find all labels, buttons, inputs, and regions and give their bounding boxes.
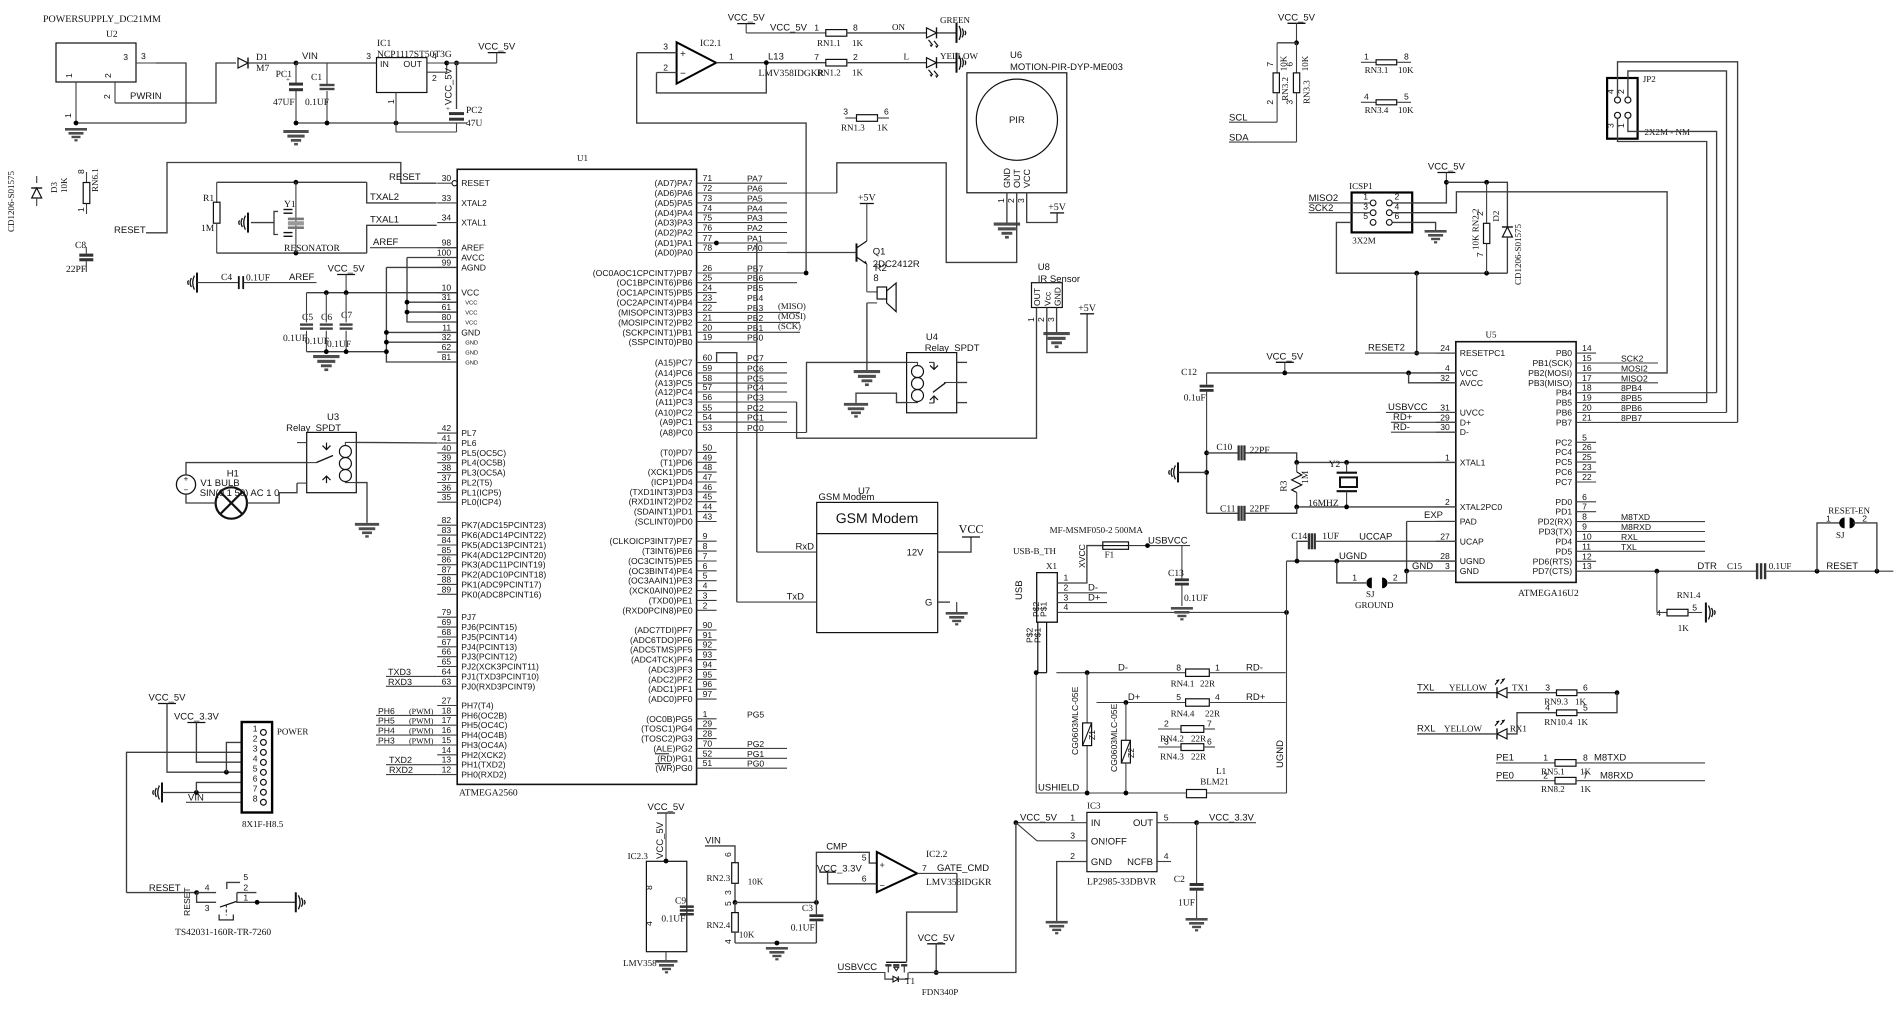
U1 pin 76 (AD2)PA2 <box>655 223 787 238</box>
overline RD <box>655 753 669 755</box>
svg-text:PC2: PC2 <box>747 403 764 413</box>
svg-text:2: 2 <box>102 94 112 99</box>
svg-text:0.1UF: 0.1UF <box>246 274 270 284</box>
svg-text:25: 25 <box>1582 452 1592 462</box>
svg-text:3: 3 <box>123 52 128 62</box>
U5 pin 17 PB3(MISO) <box>1528 373 1658 388</box>
svg-text:61: 61 <box>442 302 452 312</box>
svg-text:XTAL2PC0: XTAL2PC0 <box>1460 502 1503 512</box>
svg-text:NCFB: NCFB <box>1127 857 1153 868</box>
junction <box>1294 40 1299 45</box>
junction <box>1282 371 1287 376</box>
svg-text:PC4: PC4 <box>747 383 764 393</box>
junction <box>1444 180 1449 185</box>
svg-text:(RXD1INT2)PD2: (RXD1INT2)PD2 <box>629 497 693 507</box>
resistor RN2.3 <box>707 863 764 906</box>
U1 pin 65 PJ2(XCK3PCINT11) <box>437 657 539 672</box>
net RD- <box>1391 422 1456 433</box>
svg-text:8: 8 <box>703 541 708 551</box>
svg-text:(SCKPCINT1)PB1: (SCKPCINT1)PB1 <box>622 327 692 337</box>
wire PC0 to relay U4 <box>807 362 907 432</box>
svg-text:(PWM): (PWM) <box>409 707 434 716</box>
U1 pin 61 vcc <box>437 302 477 317</box>
svg-text:3: 3 <box>843 107 848 117</box>
svg-text:VCC: VCC <box>1460 368 1478 378</box>
svg-text:VCC_5V: VCC_5V <box>770 23 808 34</box>
svg-text:30: 30 <box>442 173 452 183</box>
capacitor C5 <box>283 293 313 352</box>
svg-text:3: 3 <box>253 743 258 753</box>
svg-text:VCC_5V: VCC_5V <box>728 13 766 24</box>
junction <box>714 241 719 246</box>
junction <box>1334 559 1339 564</box>
U1 pin 49 (T1)PD6 <box>660 452 716 467</box>
svg-text:U1: U1 <box>577 153 588 163</box>
svg-text:0.1uF: 0.1uF <box>1184 394 1206 404</box>
wire USBVCC <box>1129 535 1191 546</box>
svg-text:(AD4)PA4: (AD4)PA4 <box>655 208 693 218</box>
svg-text:RXD2: RXD2 <box>389 765 413 775</box>
wire speaker to ground <box>866 303 868 370</box>
svg-text:AREF: AREF <box>289 272 315 283</box>
svg-text:(OC2APCINT4)PB4: (OC2APCINT4)PB4 <box>617 297 693 307</box>
svg-text:62: 62 <box>442 342 452 352</box>
svg-text:92: 92 <box>703 640 713 650</box>
svg-text:RXL: RXL <box>1621 532 1638 542</box>
svg-text:3: 3 <box>1064 592 1069 602</box>
wire <box>1178 471 1207 473</box>
U5 pin 26 PC4 <box>1555 442 1596 457</box>
svg-text:C1: C1 <box>311 73 322 83</box>
connector X1 USB-B_TH <box>1013 546 1057 673</box>
ground <box>994 223 1020 226</box>
svg-text:2: 2 <box>1265 100 1275 105</box>
svg-text:+: + <box>446 105 450 113</box>
ground <box>295 892 297 912</box>
svg-text:IR Sensor: IR Sensor <box>1038 274 1080 285</box>
svg-text:GROUND: GROUND <box>1355 600 1394 610</box>
svg-text:20: 20 <box>1582 403 1592 413</box>
svg-text:1: 1 <box>243 893 248 903</box>
junction <box>255 900 260 905</box>
svg-text:1: 1 <box>1215 662 1220 672</box>
net GND <box>1407 561 1456 572</box>
svg-text:CD1206-S01575: CD1206-S01575 <box>1513 223 1523 285</box>
U1 pin 22 (MISOPCINT3)PB3 <box>618 302 800 317</box>
svg-text:Y1: Y1 <box>284 200 296 210</box>
svg-text:RN3.2: RN3.2 <box>1280 77 1290 101</box>
svg-text:6: 6 <box>723 852 733 857</box>
capacitor C1 <box>305 63 335 123</box>
svg-text:C7: C7 <box>341 311 352 321</box>
net EXP / PAD wire <box>1407 510 1456 571</box>
svg-text:CG0603MLC-05E: CG0603MLC-05E <box>1070 686 1080 755</box>
wire out to VCC flag <box>447 62 497 64</box>
capacitor C2 <box>1174 823 1204 918</box>
svg-text:0.1UF: 0.1UF <box>327 340 351 350</box>
svg-text:22PF: 22PF <box>1250 446 1270 456</box>
svg-text:VCC_5V: VCC_5V <box>1428 162 1466 173</box>
net RXL <box>1417 724 1497 735</box>
U1 pin 17 PH5(OC4C) <box>437 715 507 730</box>
U1 pin 57 (A12)PC4 <box>655 382 787 397</box>
svg-text:4: 4 <box>432 51 437 61</box>
svg-text:1: 1 <box>729 52 734 62</box>
U1 pin 68 PJ5(PCINT14) <box>437 627 517 642</box>
svg-text:RN2.4: RN2.4 <box>707 920 731 930</box>
resonator Y1 <box>239 182 341 254</box>
svg-text:M8TXD: M8TXD <box>1594 753 1626 764</box>
U1 pin 10 VCC <box>437 283 479 298</box>
svg-text:8PB5: 8PB5 <box>1621 393 1642 403</box>
svg-text:SJ: SJ <box>1836 530 1845 540</box>
svg-text:DTR: DTR <box>1697 561 1717 572</box>
MCU U5 ATMEGA16U2 <box>1456 330 1579 600</box>
svg-text:(TXD1INT3)PD3: (TXD1INT3)PD3 <box>630 487 693 497</box>
wire base <box>787 252 857 254</box>
svg-text:VCC: VCC <box>465 310 477 317</box>
svg-text:1: 1 <box>996 198 1006 203</box>
svg-text:1UF: 1UF <box>1178 898 1195 908</box>
net RXD2 <box>386 774 437 776</box>
U1 pin 6 (OC3BINT4)PE4 <box>629 561 717 576</box>
svg-text:15: 15 <box>1582 353 1592 363</box>
svg-text:(PWM): (PWM) <box>409 717 434 726</box>
svg-text:T1: T1 <box>905 976 915 986</box>
svg-text:1: 1 <box>253 723 258 733</box>
svg-text:21: 21 <box>1582 412 1592 422</box>
U5 pin RESETPC1 <box>1436 343 1506 358</box>
junction <box>325 121 330 126</box>
svg-text:RN3.1: RN3.1 <box>1365 65 1389 75</box>
svg-text:3: 3 <box>1070 831 1075 841</box>
net RD+ <box>1391 412 1456 423</box>
U1 pin 4 (XCK0AIN0)PE2 <box>629 581 717 596</box>
junction <box>384 349 389 354</box>
junction <box>1014 820 1019 825</box>
U1 pin 43 (SCLINT0)PD0 <box>635 512 717 527</box>
svg-text:PA7: PA7 <box>747 174 763 184</box>
U1 pin 78 (AD0)PA0 <box>655 243 857 258</box>
svg-text:PD4: PD4 <box>1555 536 1572 546</box>
svg-text:(ADC6TDO)PF6: (ADC6TDO)PF6 <box>630 635 693 645</box>
U1 pin 3 (TXD0)PE1 <box>649 590 717 605</box>
svg-text:(SSPCINT0)PB0: (SSPCINT0)PB0 <box>629 337 693 347</box>
svg-text:19: 19 <box>703 332 713 342</box>
U5 pin 6 PD0 <box>1555 492 1596 507</box>
svg-text:PL5(OC5C): PL5(OC5C) <box>461 448 506 458</box>
svg-text:+: + <box>680 49 686 60</box>
wire node to C3 <box>735 901 816 903</box>
svg-text:1: 1 <box>63 113 73 118</box>
svg-text:PB5: PB5 <box>747 283 763 293</box>
wire <box>1277 42 1296 44</box>
svg-text:VCC_5V: VCC_5V <box>328 264 366 275</box>
svg-text:VCC_5V: VCC_5V <box>1266 351 1304 362</box>
svg-text:VCC_5V: VCC_5V <box>1278 12 1316 23</box>
svg-text:U8: U8 <box>1038 262 1050 273</box>
svg-text:5: 5 <box>1164 812 1169 822</box>
svg-text:1: 1 <box>1826 514 1831 524</box>
op-amp IC2.2 <box>877 850 992 892</box>
capacitor C14 <box>1291 532 1456 562</box>
junction <box>1404 569 1409 574</box>
U5 pin 9 PD3(TX) <box>1539 522 1705 537</box>
svg-text:MOTION-PIR-DYP-ME003: MOTION-PIR-DYP-ME003 <box>1010 62 1123 73</box>
svg-text:1: 1 <box>1363 192 1368 202</box>
U5 pin 11 PD5 <box>1555 541 1705 556</box>
svg-text:60: 60 <box>703 353 713 363</box>
svg-text:4: 4 <box>1064 602 1069 612</box>
svg-text:USB-B_TH: USB-B_TH <box>1013 546 1057 556</box>
svg-text:TXAL1: TXAL1 <box>370 215 399 226</box>
svg-text:2: 2 <box>1393 573 1398 583</box>
wire gnd bus <box>386 267 457 362</box>
svg-text:1K: 1K <box>1678 623 1690 633</box>
svg-text:81: 81 <box>442 352 452 362</box>
resistor RN9.3 <box>1507 682 1617 706</box>
svg-text:(ICP1)PD4: (ICP1)PD4 <box>651 477 693 487</box>
svg-text:GND: GND <box>1091 857 1112 868</box>
svg-text:PK2(ADC10PCINT18): PK2(ADC10PCINT18) <box>461 570 546 580</box>
svg-text:56: 56 <box>703 392 713 402</box>
wire U8 vcc pin2 <box>1047 308 1087 353</box>
svg-text:PB3: PB3 <box>747 303 763 313</box>
svg-text:(ADC7TDI)PF7: (ADC7TDI)PF7 <box>634 625 692 635</box>
wire U6 vcc pin3 <box>1027 193 1057 223</box>
svg-text:(ADC2)PF2: (ADC2)PF2 <box>648 674 693 684</box>
MCU U1 ATMEGA2560 <box>457 153 696 799</box>
ground <box>956 602 958 612</box>
svg-text:97: 97 <box>703 689 713 699</box>
U1 pin 35 PL0(ICP4) <box>437 492 501 507</box>
U1 pin 63 PJ0(RXD3PCINT9) <box>437 676 535 691</box>
resistor RN4.2 <box>1158 719 1215 744</box>
svg-text:4: 4 <box>1656 608 1661 618</box>
svg-text:TXD2: TXD2 <box>389 755 412 765</box>
net TXL <box>1417 682 1497 693</box>
svg-text:RN1.1: RN1.1 <box>817 38 841 48</box>
svg-text:8: 8 <box>1583 753 1588 763</box>
U5 pin 5 PC2 <box>1555 432 1596 447</box>
wire gnd to pin7 <box>162 792 242 794</box>
U5 pin 21 PB7 <box>1556 412 1738 427</box>
svg-text:PD5: PD5 <box>1555 546 1572 556</box>
resistor RN1.3 <box>841 107 889 133</box>
U1 pin 80 vcc <box>437 312 477 327</box>
wire resonator top <box>217 181 367 183</box>
svg-text:PG5: PG5 <box>747 709 764 719</box>
svg-text:D+: D+ <box>1088 592 1101 603</box>
svg-text:26: 26 <box>1582 442 1592 452</box>
wire U8 gnd pin3 <box>1056 308 1058 333</box>
resistor RN4.3 <box>1158 737 1215 762</box>
svg-text:LP2985-33DBVR: LP2985-33DBVR <box>1087 878 1157 888</box>
svg-text:PAD: PAD <box>1460 516 1477 526</box>
svg-text:(OC3AAIN1)PE3: (OC3AAIN1)PE3 <box>628 576 693 586</box>
U1 pin 46 (TXD1INT3)PD3 <box>630 482 717 497</box>
net TXD2 <box>386 764 437 766</box>
svg-text:36: 36 <box>442 482 452 492</box>
junction <box>454 61 459 66</box>
svg-text:(ADC3)PF3: (ADC3)PF3 <box>648 665 693 675</box>
varistor Z2 <box>1109 703 1136 794</box>
svg-text:4: 4 <box>1545 702 1550 712</box>
svg-text:(WR)PG0: (WR)PG0 <box>655 763 692 773</box>
wire X1 pin1 XVCC <box>1057 544 1103 583</box>
junction <box>344 290 349 295</box>
svg-text:PD7(CTS): PD7(CTS) <box>1532 566 1572 576</box>
svg-text:VCC_5V: VCC_5V <box>1020 813 1058 824</box>
svg-text:1: 1 <box>703 709 708 719</box>
svg-text:13: 13 <box>442 755 452 765</box>
svg-text:87: 87 <box>442 565 452 575</box>
U5 pin PAD <box>1436 516 1477 526</box>
svg-text:R1: R1 <box>203 194 214 204</box>
svg-text:G: G <box>925 598 932 609</box>
svg-text:PB4: PB4 <box>1556 388 1572 398</box>
resistor RN1.4 <box>1656 571 1702 633</box>
U1 pin 90 (ADC7TDI)PF7 <box>634 620 716 635</box>
svg-text:3: 3 <box>1164 737 1169 747</box>
ground <box>355 523 379 526</box>
wire AVCC-VCC vertical <box>407 258 457 323</box>
svg-text:69: 69 <box>442 617 452 627</box>
svg-text:ON!OFF: ON!OFF <box>1091 836 1127 847</box>
wire JP2 pin1 to 8PB4 <box>1628 118 1717 392</box>
svg-text:5: 5 <box>1692 603 1697 613</box>
svg-text:PC2: PC2 <box>1555 437 1572 447</box>
wire AVCC bus <box>407 257 457 259</box>
wire lamp left to V1 <box>186 494 216 503</box>
svg-text:0.1UF: 0.1UF <box>1184 594 1208 604</box>
U5 pin D- <box>1436 422 1469 437</box>
svg-text:RESET: RESET <box>1826 561 1858 572</box>
svg-text:18: 18 <box>1582 383 1592 393</box>
svg-text:PH7(T4): PH7(T4) <box>461 701 494 711</box>
svg-text:2: 2 <box>853 52 858 62</box>
svg-text:2: 2 <box>1543 770 1548 780</box>
svg-text:86: 86 <box>442 555 452 565</box>
capacitor PC1 <box>273 63 303 123</box>
wire U4 pins right <box>957 361 967 363</box>
svg-text:ATMEGA2560: ATMEGA2560 <box>459 789 518 799</box>
U5 pin 10 PD4 <box>1555 531 1705 546</box>
svg-text:VCC_3.3V: VCC_3.3V <box>817 864 863 875</box>
svg-text:47U: 47U <box>466 119 483 129</box>
svg-text:GATE_CMD: GATE_CMD <box>937 863 989 874</box>
svg-text:22R: 22R <box>1200 679 1215 689</box>
svg-text:46: 46 <box>703 482 713 492</box>
U1 pin 1 (OC0B)PG5 <box>646 709 764 724</box>
U1 pin 98 AREF <box>437 238 484 253</box>
junction <box>664 859 669 864</box>
svg-text:27: 27 <box>1440 531 1450 541</box>
svg-text:RESET: RESET <box>182 887 192 916</box>
U1 pin 58 (A13)PC5 <box>655 373 787 388</box>
wire cap ground rail <box>307 351 387 353</box>
U1 pin 64 PJ1(TXD3PCINT10) <box>437 666 539 681</box>
svg-text:(TXD0)PE1: (TXD0)PE1 <box>649 595 693 605</box>
svg-text:MISO2: MISO2 <box>1621 373 1648 383</box>
net RESET wire <box>114 163 437 237</box>
svg-text:VIN: VIN <box>302 51 318 62</box>
svg-text:PJ4(PCINT13): PJ4(PCINT13) <box>461 642 517 652</box>
svg-text:49: 49 <box>703 452 713 462</box>
svg-text:(A15)PC7: (A15)PC7 <box>655 358 693 368</box>
svg-text:(A12)PC4: (A12)PC4 <box>655 387 693 397</box>
svg-text:C10: C10 <box>1216 443 1232 453</box>
svg-text:8: 8 <box>853 23 858 33</box>
svg-text:0.1UF: 0.1UF <box>791 924 815 934</box>
wire TXAL2 <box>367 182 437 203</box>
svg-text:PC1: PC1 <box>747 413 764 423</box>
svg-text:3: 3 <box>703 590 708 600</box>
resistor RN3.1 <box>1361 52 1414 75</box>
U1 pin 29 (TOSC1)PG4 <box>641 719 716 734</box>
svg-text:PA0: PA0 <box>747 243 763 253</box>
svg-text:42: 42 <box>442 423 452 433</box>
svg-text:(MOSI): (MOSI) <box>778 311 806 321</box>
svg-text:55: 55 <box>703 402 713 412</box>
resistor RN6.1 <box>76 168 100 214</box>
net SCK2 <box>1309 203 1370 214</box>
U1 pin 66 PJ3(PCINT12) <box>437 647 517 662</box>
junction <box>1124 791 1129 796</box>
junction <box>1294 505 1299 510</box>
svg-text:PC6: PC6 <box>747 363 764 373</box>
svg-text:GND: GND <box>465 360 478 367</box>
svg-text:6: 6 <box>1285 62 1295 67</box>
svg-text:37: 37 <box>442 473 452 483</box>
svg-text:PD1: PD1 <box>1555 507 1572 517</box>
svg-text:73: 73 <box>703 193 713 203</box>
op-amp power IC2.3 <box>628 851 687 952</box>
svg-text:68: 68 <box>442 627 452 637</box>
svg-text:6: 6 <box>253 773 258 783</box>
svg-text:23: 23 <box>1582 462 1592 472</box>
ground <box>656 960 678 963</box>
ground <box>1425 230 1447 233</box>
resistor RN10.4 <box>1507 693 1617 734</box>
svg-text:(RXD0PCIN8)PE0: (RXD0PCIN8)PE0 <box>622 605 692 615</box>
U1 pin 55 (A10)PC2 <box>655 402 787 417</box>
svg-text:C13: C13 <box>1168 569 1184 579</box>
svg-text:9: 9 <box>1582 522 1587 532</box>
svg-text:(TOSC1)PG4: (TOSC1)PG4 <box>641 724 693 734</box>
svg-text:GND: GND <box>465 340 478 347</box>
wire ICSP pin4 to MOSI2 bus <box>1392 192 1667 373</box>
svg-text:7: 7 <box>922 863 927 873</box>
svg-text:GND: GND <box>461 327 480 337</box>
svg-text:M8RXD: M8RXD <box>1600 770 1633 781</box>
capacitor C4 with AREF <box>188 272 317 293</box>
svg-text:(SCLINT0)PD0: (SCLINT0)PD0 <box>635 517 693 527</box>
ground <box>854 370 880 373</box>
svg-text:IC3: IC3 <box>1087 801 1101 811</box>
svg-text:4: 4 <box>1606 89 1616 94</box>
U1 pin 7 (OC3CINT5)PE5 <box>628 551 716 566</box>
U1 pin 95 (ADC2)PF2 <box>648 669 716 684</box>
svg-text:8: 8 <box>873 273 878 284</box>
junction <box>775 941 780 946</box>
wire X1 pin4 UGND <box>1057 602 1286 612</box>
U1 pin 30 RESET <box>437 173 490 188</box>
svg-text:USBVCC: USBVCC <box>838 962 878 973</box>
wire PB0 to RxD vertical <box>756 243 758 552</box>
net TXD3 <box>386 675 437 677</box>
U1 pin 72 (AD6)PA6 <box>655 183 837 198</box>
